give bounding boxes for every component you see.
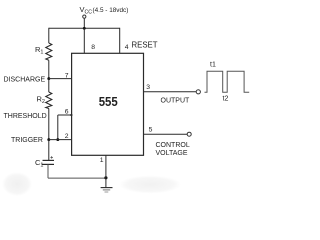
wire pin 1 (105, 155, 107, 178)
wire pin 3 output (144, 91, 197, 93)
wire pin 6 jog down (57, 115, 59, 140)
svg-text:5: 5 (149, 126, 153, 133)
junction VCC rail dot (83, 27, 86, 30)
junction trigger-R2 dot (47, 138, 50, 141)
op-amp/timer IC U1 555 box (72, 53, 144, 155)
svg-text:VOLTAGE: VOLTAGE (156, 150, 188, 157)
wire pin 2 trigger (49, 139, 72, 141)
node OUTPUT terminal circle (196, 90, 200, 94)
wire R2 to trigger node (48, 109, 50, 140)
node VCC terminal circle (83, 15, 86, 18)
svg-text:7: 7 (65, 72, 69, 79)
svg-text:CONTROL: CONTROL (156, 142, 190, 149)
wire bottom horizontal to ground node (48, 177, 106, 179)
waveform square wave (205, 71, 250, 92)
svg-text:DISCHARGE: DISCHARGE (4, 76, 46, 83)
svg-text:R1: R1 (35, 45, 43, 55)
svg-text:1: 1 (100, 157, 104, 164)
junction discharge node dot (47, 77, 50, 80)
wire discharge node to R2 (48, 79, 50, 92)
wire pin 5 control voltage (144, 133, 188, 135)
wire VCC rail (49, 27, 120, 29)
svg-text:8: 8 (91, 44, 95, 51)
wire rail to R1 (48, 28, 50, 43)
capacitor C1 plus mark (50, 156, 53, 159)
svg-text:VCC(4.5 - 18vdc): VCC(4.5 - 18vdc) (80, 5, 129, 16)
svg-text:THRESHOLD: THRESHOLD (4, 113, 47, 120)
junction ground node dot (104, 176, 107, 179)
node CONTROL terminal circle (187, 132, 191, 136)
capacitor C1 (43, 159, 55, 161)
wire C1 bottom down (47, 164, 49, 178)
svg-text:4: 4 (125, 44, 129, 51)
svg-text:6: 6 (65, 108, 69, 115)
svg-text:R2: R2 (37, 95, 45, 105)
svg-text:555: 555 (99, 94, 118, 109)
svg-text:3: 3 (146, 84, 150, 91)
wire pin 8 (83, 28, 85, 53)
wire pin 7 (49, 78, 72, 80)
wire trigger node to C1 (48, 140, 50, 160)
wire pin 6 horizontal (58, 114, 72, 116)
junction pin6 at box edge dot (70, 114, 72, 116)
svg-text:t1: t1 (210, 61, 216, 68)
resistor R1 (46, 43, 52, 60)
ground (101, 178, 113, 192)
svg-text:OUTPUT: OUTPUT (161, 97, 191, 104)
svg-text:t2: t2 (223, 96, 229, 103)
svg-text:TRIGGER: TRIGGER (11, 137, 43, 144)
wire R1 to discharge node (48, 60, 50, 78)
resistor R2 (46, 92, 52, 109)
svg-text:2: 2 (65, 133, 69, 140)
wire VCC terminal to rail (83, 19, 85, 29)
wire pin 4 (119, 28, 121, 54)
junction trigger-jog dot (56, 138, 59, 141)
svg-text:RESET: RESET (132, 41, 158, 50)
svg-text:C1: C1 (35, 158, 43, 168)
